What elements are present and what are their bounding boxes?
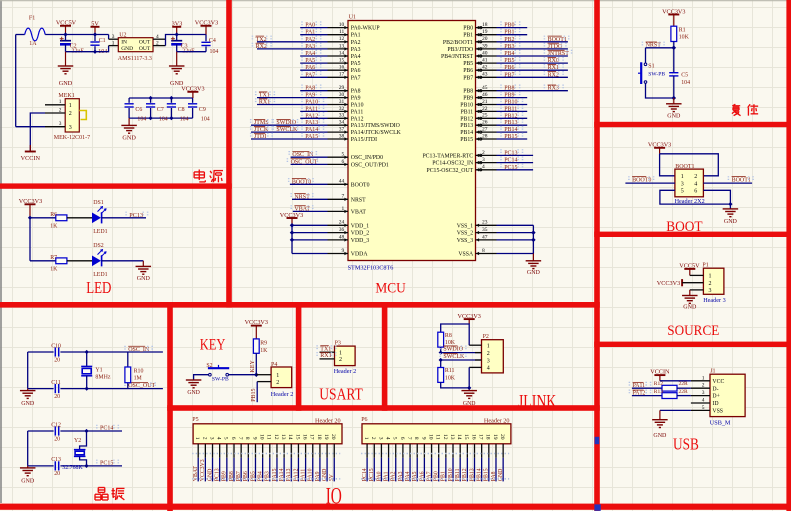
capacitor C7 104	[150, 98, 152, 103]
svg-text:PA5: PA5	[351, 61, 361, 67]
svg-text:Header 2: Header 2	[334, 368, 357, 375]
section border power/LED separator	[0, 183, 232, 188]
svg-text:GND: GND	[21, 478, 35, 484]
svg-text:3: 3	[208, 437, 214, 440]
pin U1.16 PA6	[300, 69, 327, 71]
section border reset bottom	[594, 122, 791, 127]
svg-text:20: 20	[482, 36, 488, 42]
svg-text:PB6: PB6	[463, 68, 473, 74]
wire 3V3 rail	[166, 35, 207, 46]
section border BOOT bottom	[594, 232, 791, 237]
pin BOOT1.4 BOOT1	[703, 182, 752, 184]
svg-text:Header 3: Header 3	[703, 297, 726, 304]
svg-text:KEY: KEY	[250, 360, 256, 373]
ground GND SOURCE	[682, 295, 698, 297]
svg-text:PA8: PA8	[305, 86, 315, 92]
wire NRST to switch	[645, 48, 647, 63]
svg-text:VCCIN: VCCIN	[650, 369, 670, 376]
pin P1.1	[690, 274, 704, 276]
header P5 Header 20	[193, 424, 342, 444]
svg-text:GND: GND	[498, 469, 504, 482]
svg-text:PA3: PA3	[351, 47, 361, 53]
svg-text:12: 12	[339, 36, 345, 42]
svg-text:PA15: PA15	[305, 134, 318, 140]
svg-text:USART: USART	[319, 385, 363, 404]
svg-text:6: 6	[399, 437, 405, 440]
svg-text:42: 42	[482, 65, 488, 71]
svg-text:15: 15	[339, 58, 345, 64]
fuse F1 1A	[16, 34, 25, 36]
resistor R11 10K	[438, 368, 444, 383]
svg-text:BOOT1: BOOT1	[548, 37, 567, 43]
svg-text:1: 1	[112, 40, 115, 46]
junction	[93, 50, 97, 54]
svg-text:PB6: PB6	[243, 471, 249, 481]
svg-text:PA12: PA12	[305, 113, 318, 119]
svg-text:VCC3V3: VCC3V3	[181, 86, 204, 93]
svg-text:USB_M: USB_M	[710, 419, 731, 426]
power port VCCIN USB	[659, 375, 661, 381]
power port VCC3V3 SOURCE	[681, 279, 683, 286]
svg-text:PB8: PB8	[229, 471, 235, 481]
pin U1.27 PB14	[476, 131, 497, 133]
svg-text:D-: D-	[712, 386, 718, 392]
svg-text:3: 3	[59, 121, 62, 127]
svg-text:PB5: PB5	[504, 58, 514, 64]
svg-text:C11: C11	[51, 380, 61, 386]
pin U1.43 PB7	[476, 76, 497, 78]
svg-text:GND: GND	[187, 390, 200, 396]
svg-text:GND: GND	[59, 80, 73, 87]
junction KEY node	[254, 372, 259, 377]
svg-text:PA15/JTDI: PA15/JTDI	[351, 137, 377, 143]
capacitor C1 104	[94, 35, 96, 42]
svg-text:PA1: PA1	[383, 471, 389, 481]
svg-text:1: 1	[276, 373, 279, 379]
svg-text:39: 39	[482, 43, 488, 49]
svg-text:2: 2	[59, 107, 62, 113]
pin U1.11 PA1	[300, 34, 327, 36]
wire BOOT1.6 to gnd	[703, 190, 730, 209]
svg-text:38: 38	[339, 133, 345, 139]
svg-text:10K: 10K	[679, 35, 690, 41]
svg-text:48: 48	[339, 234, 345, 240]
pin BOOT1.3 BOOT0	[625, 182, 675, 184]
MCU U1 STM32F103C8T6 body	[348, 21, 476, 261]
svg-text:BOOT0: BOOT0	[292, 179, 311, 185]
svg-text:PA6: PA6	[351, 68, 361, 74]
capacitor C3 22uF	[176, 35, 178, 41]
svg-text:22R: 22R	[679, 381, 689, 387]
wire NRST	[673, 42, 675, 73]
svg-text:PB0: PB0	[434, 471, 440, 481]
svg-text:BOOT1: BOOT1	[732, 177, 751, 183]
capacitor C6 104	[128, 98, 130, 103]
svg-text:C4: C4	[209, 38, 216, 44]
ground GND crystal1	[27, 389, 29, 391]
svg-text:P2: P2	[483, 334, 489, 340]
svg-text:104: 104	[201, 117, 210, 123]
svg-text:VCC3V3: VCC3V3	[200, 459, 206, 481]
power port VCC3V3 BOOT	[659, 148, 661, 154]
svg-text:18: 18	[316, 434, 322, 440]
svg-text:29: 29	[339, 85, 345, 91]
svg-text:SOURCE: SOURCE	[667, 323, 719, 339]
wire to ground	[102, 260, 144, 262]
wire KEY net	[255, 353, 257, 374]
svg-text:37: 37	[339, 127, 345, 133]
wire LED bus	[29, 218, 31, 261]
pin U1.14 PA4	[300, 55, 327, 57]
svg-text:2: 2	[276, 380, 279, 386]
title 晶振 (crystal)	[98, 487, 105, 489]
svg-text:1: 1	[342, 206, 345, 212]
ground GND cap bank	[128, 118, 130, 125]
wire VDD bus	[291, 224, 293, 253]
svg-text:MEK-12C01-7: MEK-12C01-7	[54, 135, 90, 141]
svg-text:VCC3V3: VCC3V3	[648, 142, 671, 149]
capacitor C4 104	[205, 35, 207, 42]
svg-text:IN: IN	[121, 40, 127, 46]
pin U1.23 VSS_1	[476, 224, 497, 226]
svg-text:17: 17	[478, 434, 484, 440]
section border right column	[594, 0, 600, 511]
pin J1.4 ID	[691, 402, 710, 404]
svg-text:4: 4	[156, 34, 159, 40]
pin U1.21 PB10	[476, 104, 497, 106]
svg-text:7: 7	[237, 437, 243, 440]
svg-text:30: 30	[339, 92, 345, 98]
svg-text:31: 31	[339, 99, 345, 105]
pin J1.3 D+	[691, 395, 710, 397]
svg-text:12: 12	[442, 434, 448, 440]
connector MEK1 MEK-12C01-7	[65, 99, 79, 132]
pin U1.10 PA0-WKUP	[300, 27, 327, 29]
svg-text:PA2: PA2	[305, 37, 315, 43]
svg-text:3: 3	[702, 390, 705, 396]
svg-text:ID: ID	[712, 401, 718, 407]
resistor R9 1K	[253, 339, 259, 353]
svg-text:1K: 1K	[260, 348, 268, 354]
svg-text:1: 1	[702, 375, 705, 381]
svg-text:20: 20	[499, 434, 505, 440]
ground GND KEY	[186, 379, 202, 381]
svg-text:11: 11	[266, 434, 272, 440]
pin U1.12 PA2	[257, 41, 328, 43]
pin J1.1 VCC	[691, 380, 710, 382]
no-connect hook on MEK1 pin 2	[79, 111, 86, 120]
wire P2.4 to ground	[441, 367, 470, 388]
svg-text:5: 5	[392, 437, 398, 440]
svg-text:5: 5	[681, 189, 684, 195]
svg-text:26: 26	[482, 120, 488, 126]
pin P1.2	[682, 282, 703, 284]
svg-text:1: 1	[363, 437, 369, 440]
svg-text:JNTRST: JNTRST	[548, 51, 570, 57]
svg-text:Header 2: Header 2	[271, 391, 294, 398]
svg-text:U2: U2	[119, 33, 126, 39]
svg-text:PB14: PB14	[460, 130, 473, 136]
svg-text:PB9: PB9	[504, 93, 514, 99]
svg-text:PB4: PB4	[504, 51, 514, 57]
pin J1.2 D-	[691, 387, 710, 389]
power port VCC3V3 KEY	[255, 326, 257, 339]
svg-text:R10: R10	[134, 368, 144, 374]
ground GND USB	[652, 419, 668, 421]
svg-text:NRST: NRST	[646, 43, 662, 49]
svg-text:TX2: TX2	[256, 37, 267, 43]
svg-text:19: 19	[492, 434, 498, 440]
pin P3.1 TX1	[320, 351, 335, 353]
svg-text:OSC_IN: OSC_IN	[292, 152, 314, 158]
svg-text:LED1: LED1	[93, 229, 107, 235]
pin U1.13 PA3	[257, 48, 328, 50]
svg-text:2: 2	[69, 111, 72, 117]
svg-text:GND: GND	[667, 114, 681, 120]
svg-text:S1: S1	[648, 63, 654, 69]
svg-text:C13: C13	[51, 457, 61, 463]
junction	[93, 32, 97, 36]
svg-text:VCC: VCC	[712, 379, 724, 385]
pin U1.42 PB6	[476, 69, 497, 71]
title 电源 (power)	[198, 170, 200, 181]
svg-text:USB: USB	[673, 435, 699, 454]
marker blue square on right border	[595, 437, 600, 444]
svg-text:NRST: NRST	[351, 197, 366, 203]
svg-text:PA13/JTMS/SWDIO: PA13/JTMS/SWDIO	[351, 123, 400, 129]
wire cap bank rail	[129, 97, 193, 99]
svg-text:19: 19	[323, 434, 329, 440]
wire MEK1 pin2 to VCCIN	[30, 113, 45, 152]
svg-text:1: 1	[487, 344, 490, 350]
capacitor C10 20	[28, 351, 54, 353]
pin U1.30 PA9	[257, 97, 328, 99]
svg-text:35: 35	[482, 227, 488, 233]
pin U1.31 PA10	[257, 104, 328, 106]
header P3 Header 2	[335, 346, 356, 366]
svg-text:PA0-WKUP: PA0-WKUP	[351, 26, 380, 32]
svg-text:4: 4	[482, 164, 485, 170]
svg-text:22: 22	[482, 106, 488, 112]
svg-text:6: 6	[230, 437, 236, 440]
power port VCC3V3 reset	[673, 15, 675, 27]
pin J1.5 VSS	[691, 409, 710, 411]
svg-text:PB3: PB3	[265, 471, 271, 481]
svg-text:STM32F103C8T6: STM32F103C8T6	[348, 264, 394, 271]
svg-text:PB8: PB8	[504, 86, 514, 92]
pin U1.17 PA7	[300, 76, 327, 78]
svg-text:10K: 10K	[445, 375, 456, 381]
svg-text:AMS1117-3.3: AMS1117-3.3	[118, 56, 152, 62]
svg-text:VSS_2: VSS_2	[457, 231, 474, 237]
svg-text:PA4: PA4	[305, 51, 315, 57]
power port VCC3V3	[205, 26, 207, 35]
svg-text:47: 47	[482, 234, 488, 240]
svg-text:18: 18	[485, 434, 491, 440]
svg-text:17: 17	[339, 72, 345, 78]
svg-text:8MHz: 8MHz	[95, 375, 110, 381]
svg-text:LED1: LED1	[93, 272, 107, 278]
svg-text:NRST: NRST	[294, 194, 310, 200]
pin U1.35 VSS_2	[476, 232, 497, 234]
svg-text:PB4: PB4	[258, 471, 264, 481]
wire BOOT1.5 to gnd	[660, 190, 731, 204]
svg-text:PB1: PB1	[504, 30, 514, 36]
svg-text:R6: R6	[50, 212, 57, 218]
svg-text:PB3: PB3	[504, 44, 514, 50]
wire VSS bus	[532, 225, 534, 253]
svg-text:RX1: RX1	[548, 65, 559, 71]
section border right edge	[786, 0, 791, 511]
svg-text:21: 21	[482, 99, 488, 105]
svg-text:OUT: OUT	[139, 46, 151, 52]
svg-text:PA1: PA1	[351, 33, 361, 39]
wire to PC13	[102, 217, 147, 219]
power port VCC3V3 cap bank	[192, 92, 194, 98]
svg-text:PA6: PA6	[419, 471, 425, 481]
resistor R6 1K	[30, 217, 56, 219]
wire U2 input	[108, 35, 110, 40]
svg-text:JTCK: JTCK	[254, 127, 269, 133]
svg-text:1: 1	[194, 437, 200, 440]
connector J1 USB_M	[710, 374, 745, 416]
wire S2 to ground	[194, 375, 209, 380]
pin U1.41 PB5	[476, 62, 497, 64]
svg-text:13: 13	[449, 434, 455, 440]
section border bottom	[0, 504, 791, 510]
svg-text:PA14/JTCK/SWCLK: PA14/JTCK/SWCLK	[351, 130, 402, 136]
svg-text:17: 17	[309, 434, 315, 440]
power port VCC3V3 JLINK	[468, 319, 470, 324]
svg-text:8: 8	[244, 437, 250, 440]
resistor R8 10K	[438, 332, 444, 347]
header P2 Header 4	[482, 340, 504, 373]
svg-text:Y1: Y1	[95, 367, 102, 373]
svg-text:PA6: PA6	[305, 65, 315, 71]
svg-text:8: 8	[413, 437, 419, 440]
svg-text:PB15: PB15	[460, 137, 473, 143]
svg-text:OSC_IN: OSC_IN	[128, 347, 150, 353]
junction	[175, 32, 179, 36]
svg-text:OSC_OUT/PD1: OSC_OUT/PD1	[351, 162, 389, 168]
svg-text:PC13-TAMPER-RTC: PC13-TAMPER-RTC	[422, 153, 473, 159]
svg-text:GND: GND	[724, 219, 738, 225]
svg-text:PA7: PA7	[426, 471, 432, 481]
svg-text:20: 20	[330, 434, 336, 440]
svg-text:25: 25	[482, 113, 488, 119]
pin P4.2	[257, 381, 271, 383]
svg-text:OSC_OUT: OSC_OUT	[128, 383, 155, 389]
pin P4.1	[256, 374, 271, 376]
svg-text:PA0: PA0	[376, 471, 382, 481]
pin P3.2 RX1	[320, 358, 335, 360]
section border crystal right	[167, 302, 173, 511]
compile-mask dots	[192, 453, 340, 455]
svg-text:VSS_1: VSS_1	[457, 223, 474, 229]
svg-text:40: 40	[482, 50, 488, 56]
svg-text:PA13: PA13	[305, 120, 318, 126]
svg-text:PB1: PB1	[441, 471, 447, 481]
wire VCCIN to J1.1	[660, 380, 691, 382]
ground GND LED	[142, 261, 144, 267]
pin U1.37 PA14/JTCK/SWCLK	[251, 131, 328, 133]
svg-text:44: 44	[339, 179, 345, 185]
svg-text:104: 104	[210, 49, 219, 55]
svg-text:13: 13	[280, 434, 286, 440]
wire P1.3 to gnd	[689, 290, 691, 296]
section border vertical left-column/MCU	[226, 0, 232, 308]
svg-text:PA2: PA2	[351, 40, 361, 46]
svg-text:PB12: PB12	[460, 116, 473, 122]
wire crystal group2 left	[27, 431, 29, 466]
svg-text:PB15: PB15	[251, 388, 257, 401]
svg-text:PA11: PA11	[351, 109, 364, 115]
svg-text:9: 9	[420, 437, 426, 440]
header P1 Header 3	[703, 268, 724, 294]
pin U1.2 PC13-TAMPER-RTC	[476, 154, 497, 156]
pin U1.5 OSC_IN/PD0	[291, 156, 328, 158]
wire gnd rail	[66, 46, 109, 52]
svg-text:BOOT0: BOOT0	[632, 177, 651, 183]
svg-text:BOOT1: BOOT1	[675, 164, 694, 170]
switch S1 SW-PB	[644, 63, 647, 66]
wire OSC_OUT	[60, 388, 162, 390]
svg-text:2: 2	[339, 357, 342, 363]
svg-text:RX1: RX1	[320, 353, 331, 359]
svg-text:8: 8	[482, 248, 485, 254]
svg-text:C6: C6	[135, 107, 142, 113]
svg-text:PA8: PA8	[351, 89, 361, 95]
svg-text:2: 2	[694, 174, 697, 180]
svg-text:PA7: PA7	[305, 72, 315, 78]
svg-text:16: 16	[302, 434, 308, 440]
svg-text:9: 9	[251, 437, 257, 440]
pin U1.45 PB8	[476, 90, 497, 92]
svg-text:PB12: PB12	[504, 113, 517, 119]
svg-text:6: 6	[694, 189, 697, 195]
svg-text:SWCLK: SWCLK	[443, 354, 465, 360]
svg-text:PA3: PA3	[398, 471, 404, 481]
svg-text:4: 4	[384, 437, 390, 440]
pin P2.3	[475, 359, 482, 361]
svg-text:1: 1	[59, 99, 62, 105]
svg-text:BOOT0: BOOT0	[351, 182, 370, 188]
pin U1.19 PB1	[476, 34, 497, 36]
svg-text:16: 16	[470, 434, 476, 440]
pin MEK1.2	[45, 112, 65, 114]
svg-text:P4: P4	[271, 362, 277, 368]
svg-text:1A: 1A	[29, 41, 37, 47]
pin U1.33 PA12	[300, 117, 327, 119]
svg-text:PB10: PB10	[504, 100, 517, 106]
svg-text:RX1: RX1	[259, 100, 270, 106]
svg-text:14: 14	[456, 434, 462, 440]
svg-text:GND: GND	[21, 401, 35, 407]
svg-text:46: 46	[482, 92, 488, 98]
svg-text:VCC3V3: VCC3V3	[19, 198, 42, 205]
svg-text:11: 11	[339, 29, 345, 35]
svg-text:PB7: PB7	[463, 75, 473, 81]
wire crystal group1 left	[27, 352, 29, 389]
svg-text:3: 3	[709, 288, 712, 294]
svg-text:10K: 10K	[445, 340, 456, 346]
svg-text:TX1: TX1	[320, 346, 331, 352]
svg-text:GND: GND	[121, 46, 133, 52]
svg-text:32: 32	[339, 106, 345, 112]
pin U1.48 VDD_3	[292, 239, 328, 241]
resistor R10 1M	[127, 352, 129, 367]
svg-text:7: 7	[342, 194, 345, 200]
